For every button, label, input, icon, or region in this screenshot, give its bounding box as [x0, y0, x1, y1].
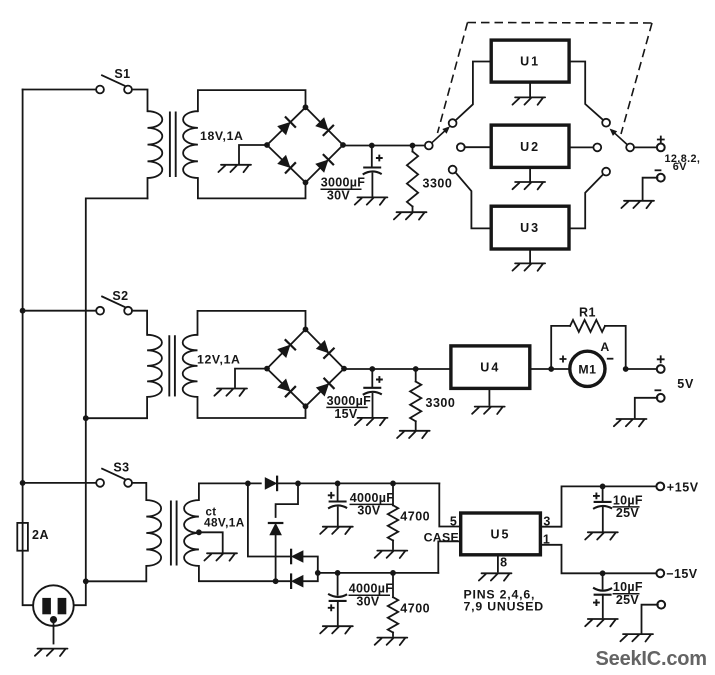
svg-text:3000µF: 3000µF: [321, 176, 366, 190]
ground output 1: [621, 201, 654, 208]
wire T2 secondary bottom to bridge 2: [198, 397, 306, 418]
svg-text:4700: 4700: [400, 601, 430, 615]
wire bridge 1 AC left to ground: [239, 145, 267, 164]
bridge rectifier BR2 arms: [267, 329, 306, 368]
svg-text:U4: U4: [480, 361, 500, 375]
ground resistor 3300 (section 2): [397, 431, 430, 438]
rotary switch wafer A position-3 contact: [449, 166, 457, 174]
bridge rectifier BR1 arms: [267, 107, 306, 145]
terminal +15V output: [656, 483, 664, 491]
node hot-S2 junction: [20, 308, 26, 314]
svg-text:U3: U3: [520, 221, 540, 235]
wire C4 to ground: [337, 601, 339, 625]
label - sign output 1: [655, 169, 662, 171]
wire D3 feed from T3 top: [248, 483, 291, 556]
wire U1 ground stem: [529, 82, 531, 96]
resistor 4700 (negative) leads: [392, 573, 394, 597]
wire S1 to T1 primary: [132, 90, 148, 112]
node M1 - junction: [623, 366, 629, 372]
capacitor C6 lead: [602, 573, 604, 588]
wire hot to S2: [23, 310, 97, 312]
wire U4 ground stem: [488, 388, 490, 405]
svg-text:A: A: [600, 340, 609, 354]
wire U2 ground stem: [529, 167, 531, 180]
terminal - output section 1: [657, 174, 665, 182]
dashed gang linkage of selector switches: [468, 22, 653, 25]
diode BR1 upper-right: [315, 117, 334, 136]
wire negative rail: [318, 572, 439, 574]
svg-text:7,9 UNUSED: 7,9 UNUSED: [464, 600, 544, 614]
terminal -15V output: [656, 569, 664, 577]
rotary switch wafer A position-2 contact: [457, 143, 465, 151]
wire C6 to ground: [602, 595, 604, 618]
wire T2 secondary top to bridge 2: [198, 311, 306, 335]
resistor R1 right lead: [605, 326, 626, 369]
diode BR1 upper-left: [277, 116, 296, 135]
svg-text:15V: 15V: [334, 407, 358, 421]
node BR2 top junction: [303, 327, 309, 333]
diode D4 (negative lower): [291, 573, 303, 589]
resistor 4700 (negative): [388, 597, 398, 632]
ground C3: [320, 527, 353, 534]
wire U5 pin 3: [540, 486, 657, 526]
transformer T1 primary winding: [148, 111, 163, 178]
regulator U5: [461, 513, 541, 555]
node R-bleed-2 junction: [413, 366, 419, 372]
node R4 junction: [390, 570, 396, 576]
node C5 junction: [600, 484, 606, 490]
ground U3: [513, 263, 546, 270]
node neutral-T3 junction: [83, 578, 89, 584]
svg-text:U2: U2: [520, 140, 540, 154]
ground resistor 3300 (section 1): [394, 212, 427, 219]
wire M1 to + output 2: [626, 368, 658, 370]
diode BR2 lower-left: [277, 378, 296, 397]
capacitor C5 lead: [602, 486, 604, 501]
diode BR2 lower-right: [315, 378, 334, 397]
node BR1 bottom junction: [303, 180, 309, 186]
svg-text:SeekIC.com: SeekIC.com: [596, 648, 707, 670]
switch S3 lever: [102, 469, 125, 479]
resistor 3300 (section 1): [407, 152, 418, 207]
node M1 + junction: [548, 366, 554, 372]
node C4 junction: [335, 570, 341, 576]
wire U3 ground stem: [529, 249, 531, 262]
ground U2: [513, 182, 546, 189]
resistor R1 shunt left lead: [551, 326, 570, 369]
svg-text:U5: U5: [491, 527, 511, 541]
rotary switch wafer B position-1 contact: [602, 119, 610, 127]
node BR2 left junction: [264, 366, 270, 372]
wire T2 primary bottom: [86, 397, 147, 418]
ground resistor 4700 (negative): [375, 638, 408, 645]
transformer T3 center tap junction: [196, 529, 202, 535]
node BR2 bottom junction: [303, 403, 309, 409]
wire U5 pin 1: [540, 545, 657, 574]
node hot-S3 junction: [20, 480, 26, 486]
transformer T1 secondary winding: [183, 111, 198, 178]
svg-text:12V,1A: 12V,1A: [197, 353, 241, 367]
svg-text:4700: 4700: [400, 509, 430, 523]
ground C1: [355, 197, 388, 204]
regulator U4: [451, 346, 530, 389]
node BR1 left junction: [264, 142, 270, 148]
wire AC neutral rail: [86, 198, 148, 418]
wire T1 secondary top to bridge 1: [198, 90, 306, 111]
wire D4 to negative node: [303, 573, 318, 581]
resistor 3300 (section 2): [410, 382, 421, 422]
capacitor C5 10uF/25V: [594, 501, 612, 503]
ammeter M1: [570, 351, 605, 386]
transformer T3 core: [170, 502, 172, 565]
switch S1 lever: [102, 75, 125, 85]
fuse F1 2A: [17, 523, 28, 551]
svg-text:3300: 3300: [426, 396, 456, 410]
wire U4 output to M1: [530, 368, 570, 370]
node C1 junction: [369, 143, 375, 149]
svg-text:S3: S3: [113, 461, 129, 475]
resistor 3300 (section 2) leads: [415, 369, 417, 382]
svg-text:2A: 2A: [32, 528, 49, 542]
ground bridge 1: [218, 165, 251, 172]
ground resistor 4700 (positive): [375, 551, 408, 558]
node BR1 right junction: [340, 142, 346, 148]
wire bridge 1 output: [343, 145, 425, 147]
rotary switch wafer A common contact: [425, 142, 433, 150]
rotary switch wafer B position-2 contact: [593, 144, 601, 152]
rotary switch wafer A wiper arrow: [432, 131, 445, 143]
svg-text:30V: 30V: [357, 504, 381, 518]
resistor 4700 (positive) leads: [392, 483, 394, 505]
diode BR1 lower-right: [315, 154, 334, 173]
svg-text:3: 3: [543, 514, 550, 528]
terminal + output section 1: [657, 144, 665, 152]
transformer T2 core: [168, 336, 170, 395]
node C2 junction: [369, 366, 375, 372]
capacitor C3 4000uF/30V: [329, 500, 347, 502]
node D2-D4 bottom junction: [273, 578, 279, 584]
svg-text:30V: 30V: [356, 594, 380, 608]
capacitor C3 lead: [337, 483, 339, 500]
ground output 2: [614, 419, 647, 426]
svg-text:−15V: −15V: [666, 567, 697, 581]
wire D2 to bottom wire: [275, 536, 277, 582]
regulator U3: [491, 206, 569, 249]
wire plug ground stem: [53, 622, 55, 644]
node BR1 top junction: [303, 104, 309, 110]
wire wafer A pos-2 to U2 input: [465, 146, 490, 148]
svg-text:25V: 25V: [616, 506, 640, 520]
wire - output 2 to ground: [635, 398, 658, 418]
svg-text:S2: S2: [112, 289, 128, 303]
wire C3 to ground: [337, 508, 339, 526]
diode D3 (negative upper): [291, 549, 303, 565]
ground C5: [585, 532, 618, 539]
wire - output 1 to ground: [643, 178, 658, 200]
wire T3 primary bottom: [86, 566, 147, 581]
wire jog from D2 to + rail: [276, 483, 298, 517]
transformer T2 primary winding: [147, 335, 162, 397]
svg-text:3300: 3300: [423, 177, 453, 191]
wire center tap to ground: [199, 532, 223, 552]
diode BR1 lower-left: [277, 154, 296, 173]
wire T3 secondary bottom: [199, 566, 291, 581]
node D2 jog junction: [295, 481, 301, 487]
resistor 4700 (positive): [388, 505, 398, 540]
transformer T3 primary winding: [146, 500, 161, 566]
wire wafer A pos-1 to U1 input: [455, 62, 489, 121]
capacitor C4 4000uF/30V: [329, 600, 347, 602]
diode D1 (top positive): [265, 476, 277, 492]
ground bridge 2: [214, 389, 247, 396]
capacitor C2 3000uF lead: [371, 369, 373, 387]
svg-text:1: 1: [543, 533, 550, 547]
wire U3 output to wafer B pos-3: [569, 174, 603, 228]
resistor 3300 (section 1) leads: [412, 146, 414, 152]
ground U4: [472, 407, 505, 414]
label M1 + polarity: [560, 356, 567, 363]
node C3 junction: [335, 481, 341, 487]
label - sign output 2: [655, 389, 662, 391]
capacitor C2 3000uF/15V: [363, 387, 381, 389]
ground C2: [355, 418, 388, 425]
node R-bleed-1 junction: [410, 143, 416, 149]
svg-text:U1: U1: [520, 55, 540, 69]
wire S3 to T3 primary: [132, 483, 146, 500]
node C6 junction: [600, 570, 606, 576]
regulator U2: [491, 125, 569, 167]
label + sign output 1: [657, 136, 665, 144]
wire U2 output to wafer B pos-2: [569, 146, 593, 148]
label + sign output 2: [657, 355, 665, 363]
wire C2 to ground: [372, 394, 374, 416]
wire CASE pin to negative rail: [438, 541, 459, 573]
rotary switch wafer B wiper arrow: [615, 134, 627, 145]
transformer T2 secondary winding: [183, 335, 198, 397]
svg-text:5V: 5V: [677, 377, 694, 391]
wire T1 primary bottom: [147, 178, 149, 198]
diode BR2 upper-right: [315, 339, 334, 358]
wire wafer A pos-3 to U3 input: [455, 172, 489, 228]
switch S3 contact circles: [96, 479, 104, 487]
switch S1 contact circles: [96, 86, 104, 94]
wire C1 to ground: [371, 174, 373, 196]
label M1 - polarity: [607, 358, 614, 360]
svg-text:3000µF: 3000µF: [327, 394, 372, 408]
wire bridge 2 AC left to ground: [235, 369, 267, 387]
wire C5 to ground: [602, 508, 604, 531]
capacitor C1 3000uF lead: [371, 146, 373, 167]
wire hot to S1: [23, 89, 97, 91]
switch S2 lever: [102, 297, 125, 307]
svg-text:CASE: CASE: [424, 530, 459, 544]
terminal common output section 3: [657, 601, 665, 609]
wire U5 pin 8 stem: [497, 555, 499, 572]
capacitor C1 3000uF/30V: [363, 166, 381, 168]
svg-text:8: 8: [500, 555, 507, 569]
node negative rail junction: [315, 570, 321, 576]
wire D3 to negative node: [303, 557, 318, 573]
wire S2 to T2 primary: [132, 311, 147, 335]
wire T1 secondary bottom to bridge 1: [198, 178, 306, 198]
ground C6: [585, 619, 618, 626]
svg-text:6V: 6V: [673, 161, 687, 173]
svg-text:30V: 30V: [327, 189, 351, 203]
AC plug P1: [33, 585, 74, 626]
node neutral-T2 junction: [83, 415, 89, 421]
regulator U1: [491, 40, 569, 82]
diode BR2 upper-left: [277, 339, 296, 358]
terminal + output section 2: [657, 365, 665, 373]
ground center tap: [204, 553, 237, 560]
wire T3 secondary top: [199, 483, 261, 500]
wire common output 3 to ground: [642, 605, 658, 633]
rotary switch wafer B position-3 contact: [602, 168, 610, 176]
wire hot to S3: [23, 482, 97, 484]
terminal - output section 2: [657, 394, 665, 402]
rotary switch wafer A position-1 contact: [449, 119, 457, 127]
svg-text:S1: S1: [114, 67, 130, 81]
node BR2 right junction: [341, 366, 347, 372]
ground plug: [35, 649, 68, 656]
wire + rail to U5 pin 5: [439, 483, 459, 526]
svg-text:5: 5: [450, 514, 457, 528]
transformer T1 core: [169, 113, 171, 177]
ground C4: [320, 626, 353, 633]
svg-text:18V,1A: 18V,1A: [200, 129, 244, 143]
node R3 junction: [390, 481, 396, 487]
svg-text:R1: R1: [579, 306, 596, 320]
svg-text:+15V: +15V: [667, 480, 699, 494]
ground U5 pin 8: [479, 573, 512, 580]
svg-text:48V,1A: 48V,1A: [204, 516, 245, 530]
diode D2 (vertical): [268, 523, 284, 535]
wire U1 output to wafer B pos-1: [569, 62, 603, 121]
svg-text:M1: M1: [578, 362, 596, 376]
capacitor C6 10uF/25V: [594, 594, 612, 596]
svg-text:25V: 25V: [616, 593, 640, 607]
node T3 top / D3 branch junction: [245, 481, 251, 487]
switch S2 contact circles: [96, 307, 104, 315]
wire D1 to + rail: [278, 482, 440, 484]
wire AC hot left rail: [22, 90, 24, 523]
wire wafer B common to + output: [634, 146, 657, 148]
ground U1: [513, 97, 546, 104]
ground common output 3: [620, 634, 653, 641]
rotary switch wafer B common contact: [626, 144, 634, 152]
resistor R1: [570, 320, 605, 332]
wire bridge 2 output to U4: [344, 368, 450, 370]
capacitor C4 lead: [337, 573, 339, 595]
transformer T3 secondary winding: [184, 500, 199, 566]
